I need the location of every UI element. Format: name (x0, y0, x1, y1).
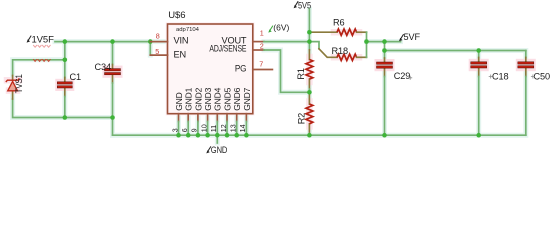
svg-text:GND6: GND6 (232, 87, 242, 110)
bottom pin numbers (170, 124, 247, 132)
svg-text:14: 14 (238, 124, 247, 132)
wire main GND rail (113, 134, 526, 136)
svg-text:9: 9 (190, 128, 199, 132)
svg-text:GND5: GND5 (222, 87, 232, 110)
svg-text:C18: C18 (492, 72, 508, 82)
origin cross C18 (489, 75, 493, 79)
svg-text:GND1: GND1 (184, 87, 194, 110)
capacitor C1 (55, 42, 74, 118)
svg-text:GND7: GND7 (242, 87, 252, 110)
net label GND flag (206, 146, 211, 153)
svg-text:R1: R1 (296, 68, 306, 79)
junction dots left (63, 39, 68, 44)
svg-text:GND3: GND3 (203, 87, 213, 110)
svg-text:11: 11 (209, 125, 218, 132)
pin 5 EN stub (150, 54, 167, 56)
svg-text:13: 13 (229, 124, 238, 132)
pin 8 VIN stub (150, 41, 167, 43)
svg-text:R2: R2 (297, 113, 307, 124)
svg-text:ADJ/SENSE: ADJ/SENSE (209, 44, 246, 54)
svg-text:2: 2 (260, 41, 264, 50)
pin 7 PG stub (253, 69, 273, 71)
svg-text:GND: GND (174, 92, 184, 110)
svg-text:TVS1: TVS1 (14, 74, 24, 93)
TVS diode TVS1 (6, 76, 20, 100)
wire EN branch (149, 42, 151, 56)
junction dots on GND rail (176, 133, 181, 138)
net 1V5F label flag (27, 36, 32, 43)
origin cross C29 (408, 76, 412, 80)
svg-text:PG: PG (235, 63, 247, 73)
op-amp U6 IC box adp7104 (168, 24, 253, 114)
resistor R1 (306, 42, 313, 93)
origin cross C50 (531, 75, 535, 79)
svg-text:5: 5 (155, 47, 159, 56)
svg-text:U$6: U$6 (168, 10, 185, 21)
svg-text:GND: GND (211, 145, 228, 156)
resistor R2 (306, 92, 313, 135)
svg-text:1: 1 (260, 28, 264, 37)
resistor R18 (309, 42, 366, 61)
wire cap rail drop (384, 42, 386, 51)
net label 5VF flag (399, 34, 404, 41)
svg-text:R6: R6 (333, 17, 344, 27)
wire TVS branch (13, 60, 113, 135)
svg-text:C34: C34 (95, 62, 111, 72)
junction dots right (307, 30, 312, 35)
svg-text:5VF: 5VF (404, 32, 421, 43)
resistor R6 (309, 29, 366, 42)
wire 1V5F (55, 41, 150, 43)
wire capacitor rail (385, 50, 526, 52)
svg-text:(6V): (6V) (273, 22, 289, 32)
svg-text:GND4: GND4 (213, 87, 223, 110)
capacitor C29 (375, 51, 395, 136)
wire 1V5F horizontal halo (13, 42, 168, 136)
svg-text:10: 10 (199, 124, 208, 132)
bottom pin names GND..GND7 (174, 87, 252, 110)
svg-text:8: 8 (156, 31, 160, 40)
wire VOUT pin1 net (264, 41, 309, 43)
tiny red marks on TVS wire (33, 45, 50, 47)
svg-text:GND2: GND2 (193, 87, 203, 110)
svg-text:12: 12 (219, 124, 228, 132)
svg-text:EN: EN (174, 49, 186, 59)
svg-text:adp7104: adp7104 (176, 27, 200, 33)
svg-text:1V5F: 1V5F (32, 34, 55, 45)
svg-text:C29: C29 (394, 71, 410, 81)
svg-text:3: 3 (170, 128, 179, 132)
capacitor C50 (516, 51, 536, 136)
svg-text:R18: R18 (332, 46, 348, 56)
capacitor C34 (103, 42, 123, 118)
bottom GND pin wires (179, 122, 247, 136)
wire GND label stub (216, 135, 218, 143)
wire pin2 ADJ net (264, 50, 309, 92)
wire 5V5 vertical (308, 9, 310, 42)
supply flag 5V5 (294, 1, 299, 8)
bottom GND pin stubs (179, 114, 247, 122)
pin 1 VOUT stub (253, 41, 264, 43)
net label (6V) flag (268, 26, 273, 33)
svg-text:C1: C1 (70, 72, 81, 82)
svg-text:VIN: VIN (174, 36, 189, 46)
svg-text:6: 6 (180, 128, 189, 132)
svg-text:7: 7 (259, 59, 263, 68)
wire main rails halo (113, 9, 526, 143)
capacitor C18 (469, 51, 489, 136)
svg-text:C50: C50 (534, 72, 550, 82)
wire 5VF (367, 41, 401, 43)
pin 2 ADJ/SENSE stub (253, 49, 264, 51)
